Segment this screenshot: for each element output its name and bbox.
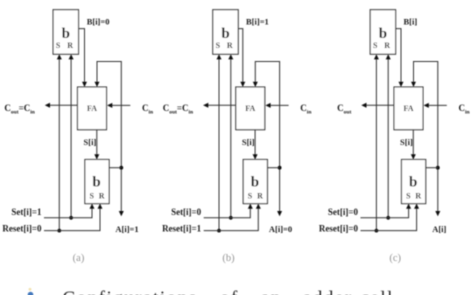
svg-text:Reset[i]=1: Reset[i]=1: [162, 224, 202, 234]
svg-text:adder: adder: [303, 288, 353, 295]
svg-text:FA: FA: [403, 104, 413, 113]
svg-text:cell: cell: [361, 288, 394, 295]
svg-text:b: b: [221, 26, 229, 42]
svg-text:S: S: [248, 192, 253, 201]
svg-text:R: R: [227, 41, 233, 50]
svg-text:B[i]=0: B[i]=0: [87, 16, 110, 26]
svg-text:b: b: [379, 26, 387, 42]
svg-text:b: b: [251, 175, 259, 191]
svg-text:of: of: [220, 288, 239, 295]
svg-text:S[i]: S[i]: [242, 137, 255, 147]
svg-text:(a): (a): [73, 253, 85, 264]
svg-text:R: R: [384, 41, 390, 50]
svg-text:b: b: [62, 26, 70, 42]
svg-text:b: b: [409, 175, 417, 191]
svg-text:S: S: [406, 192, 411, 201]
svg-text:S: S: [56, 41, 61, 50]
svg-text:S: S: [373, 41, 378, 50]
svg-text:Set[i]=0: Set[i]=0: [171, 207, 202, 217]
svg-text:FA: FA: [245, 104, 255, 113]
svg-text:Configurations: Configurations: [63, 288, 198, 295]
svg-text:Set[i]=0: Set[i]=0: [328, 207, 359, 217]
svg-text:S: S: [89, 192, 94, 201]
svg-text:Reset[i]=0: Reset[i]=0: [2, 224, 42, 234]
svg-text:S[i]: S[i]: [400, 137, 413, 147]
svg-text:A[i]=0: A[i]=0: [269, 224, 292, 234]
svg-text:S[i]: S[i]: [84, 137, 97, 147]
svg-text:R: R: [99, 192, 105, 201]
svg-text:Reset[i]=0: Reset[i]=0: [319, 224, 359, 234]
svg-text:B[i]=1: B[i]=1: [246, 16, 269, 26]
svg-text:FA: FA: [87, 104, 97, 113]
svg-text:b: b: [92, 175, 100, 191]
svg-text:R: R: [415, 192, 421, 201]
svg-text:Set[i]=1: Set[i]=1: [11, 207, 42, 217]
svg-text:A[i]: A[i]: [432, 224, 446, 234]
svg-text:R: R: [257, 192, 263, 201]
svg-text:S: S: [216, 41, 221, 50]
svg-text:an: an: [261, 288, 282, 295]
svg-text:(b): (b): [222, 253, 235, 264]
svg-text:R: R: [67, 41, 73, 50]
svg-text:B[i]: B[i]: [404, 16, 418, 26]
svg-text:A[i]=1: A[i]=1: [115, 224, 138, 234]
svg-text:(c): (c): [389, 253, 401, 264]
